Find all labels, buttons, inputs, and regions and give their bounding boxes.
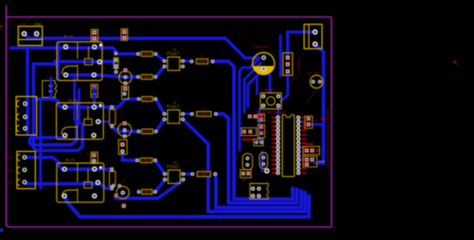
header C8 right of U4 (305, 116, 318, 128)
wire regulator to terminal X3 (288, 32, 315, 58)
label TILP 10V (307, 71, 319, 75)
svg-text:LM7805: LM7805 (297, 59, 301, 70)
svg-text:4K7: 4K7 (144, 190, 150, 194)
optocoupler U1 PC817 (163, 48, 185, 71)
svg-text:4K7: 4K7 (144, 130, 150, 134)
wire left horizontal to relay1 (34, 64, 58, 78)
wire cap to reset (264, 69, 270, 92)
wire 4K7 no3 to opto U2 pin1 (156, 99, 165, 114)
svg-text:RL V3: RL V3 (66, 158, 75, 162)
capacitor C2 electrolytic (117, 121, 132, 138)
svg-text:Pw1: Pw1 (7, 156, 13, 160)
wire diode D2b to 4K7 no4 (112, 126, 139, 131)
board outline bottom edge (6, 222, 331, 227)
svg-text:RL V1: RL V1 (69, 98, 78, 102)
wire opto U1 out to R1 (183, 60, 192, 63)
stray red dot top right (453, 60, 458, 65)
svg-text:4K7: 4K7 (143, 159, 149, 163)
small part Rv1 vertical (114, 58, 119, 69)
wire 4K7 no4 to opto U2 pin2 (156, 119, 165, 131)
IC U4 DIP-28 pads (276, 116, 301, 175)
header H2 right of U4 (303, 146, 319, 154)
wire U4 to header H3 (298, 158, 306, 161)
pads pair C10 (248, 114, 264, 119)
resistor 4K7 no5 (135, 158, 157, 163)
connector J1 power (18, 26, 42, 45)
svg-text:F1: F1 (122, 179, 126, 183)
wire R2 to bus then up to MCU (216, 114, 297, 203)
wire bottom cap to opto U3 pin4 (116, 180, 183, 198)
svg-text:U4: U4 (256, 110, 260, 114)
terminal block X3 2pin (304, 24, 322, 48)
svg-text:470: 470 (201, 112, 207, 116)
wire R3 to bus then up to MCU (215, 174, 301, 207)
via near relay1 (99, 44, 102, 47)
capacitor C4 TILP (310, 75, 323, 88)
wire relay3 top row (65, 167, 112, 170)
relay RL V2 (56, 98, 103, 139)
svg-text:In1: In1 (8, 102, 13, 106)
terminal block X1 3pin (16, 97, 36, 136)
via at 4K7 no1 feed (114, 52, 117, 55)
label X2 pin3 (8, 181, 14, 185)
svg-text:RL V1: RL V1 (64, 35, 73, 39)
ratsnest diag 2 (288, 76, 294, 92)
wire vertical near crystal (261, 152, 263, 171)
IC U4 body (282, 115, 294, 177)
diode D2b 1N4148 vertical (109, 105, 118, 128)
label GND (34, 23, 42, 27)
capacitor C3 330uF (253, 53, 275, 75)
via below Y1 (264, 168, 269, 173)
wire relay1 to relay2 coil vertical 1 (73, 78, 76, 119)
board outline top edge (6, 16, 331, 18)
svg-text:1N4148: 1N4148 (114, 173, 118, 183)
svg-text:1N4148: 1N4148 (259, 130, 269, 134)
wire reset right pad to U4 pin1 (277, 106, 280, 118)
wire regulator down (281, 71, 288, 101)
wire conn2 pin1 to relay3 (25, 157, 65, 169)
wire reset to C5 C6 vertical (260, 106, 264, 140)
relay RL V1 (57, 35, 102, 81)
wire relay2 mid pad to diode D2 (98, 120, 108, 122)
svg-text:RESET: RESET (265, 89, 276, 93)
IC U4 pin labels (272, 117, 307, 174)
label VCC (20, 23, 28, 27)
label X1 pin2 (8, 115, 13, 119)
svg-text:D-RB: D-RB (5, 168, 12, 172)
diode D3b 1N4148 vertical (109, 167, 118, 190)
jumper JP2 2pad (121, 29, 127, 41)
wire 4K7 no5 to opto U3 pin1 (155, 160, 165, 174)
part header H1 left (241, 128, 268, 136)
resistor R3 470 (191, 167, 217, 176)
part JP3 below C1 (122, 86, 129, 99)
label red row below H1 (242, 138, 254, 140)
regulator VR1 78L05 (283, 53, 301, 76)
wire coil feed B (34, 99, 83, 151)
connector ISP 4pad block (250, 184, 268, 200)
wire relay2 return U-turn (30, 120, 77, 145)
optocoupler U3 PC817 (163, 161, 185, 184)
wire GND bottom of J1 long (11, 48, 138, 54)
header H3 I2C (303, 156, 325, 167)
wire top mid vertical stub (279, 36, 282, 76)
wire through D1 (93, 88, 96, 107)
ratsnest diag 1 (306, 90, 316, 104)
wire relay3 to long bottom trace (65, 196, 310, 217)
label fragment left edge (0, 25, 3, 27)
ratsnest line right (327, 108, 329, 168)
wire opto U2 pin4 diagonal to bus (183, 119, 305, 211)
svg-text:In2: In2 (8, 115, 13, 119)
wire U4 to header H2 (298, 147, 306, 150)
wire conn2 pin3 through relay3 coil (25, 182, 112, 188)
svg-text:R2: R2 (202, 107, 206, 111)
svg-text:In3: In3 (8, 127, 13, 131)
wire header B1 to right vertical (312, 123, 324, 126)
jumper Jv vertical (119, 140, 127, 155)
diode D2 2pin (91, 152, 98, 163)
jumper JP1 2pad (91, 30, 98, 42)
label U4 ATMEGA328P (256, 110, 287, 115)
wire relay1 middle row (55, 62, 116, 72)
svg-text:PC817: PC817 (166, 104, 179, 109)
wire Jv to 4K7 no5 (123, 151, 138, 160)
part J5 left of crystal (254, 139, 263, 146)
resistor 4K7 no3 (137, 97, 157, 102)
capacitor C7 bottom small (240, 170, 251, 182)
wire terminal X3 pin2 down right edge (315, 44, 324, 163)
wire left vertical A branch (26, 48, 29, 133)
terminal block X2 3pin (17, 151, 36, 188)
svg-text:4K7: 4K7 (144, 75, 150, 79)
svg-text:MCH: MCH (319, 160, 325, 164)
svg-text:4K7: 4K7 (144, 52, 150, 56)
crystal Y1 (260, 153, 268, 169)
wire relay1 to relay2 coil vertical 2 (78, 90, 81, 124)
capacitor C5 left of U4 (258, 114, 265, 122)
resistor 4K7 no4 (137, 129, 158, 134)
wire mcu left vertical 3 (248, 69, 264, 106)
svg-text:1N4148: 1N4148 (114, 111, 118, 121)
wire through fuse (50, 78, 53, 99)
svg-text:C7: C7 (242, 178, 246, 182)
resistor 4K7 no6 (137, 189, 157, 194)
label X1 pin3 (8, 127, 13, 131)
wire cap side vertical (256, 76, 258, 94)
wire 4K7 no6 to opto U3 pin2 (155, 180, 165, 192)
wire 4K7 no1 to opto U1 (156, 54, 165, 61)
capacitor C1 electrolytic (118, 68, 132, 85)
wire opto U3 out to R3 (183, 173, 192, 176)
svg-text:Pw2: Pw2 (8, 181, 14, 185)
via mid column (114, 70, 118, 74)
label X1 pin1 (8, 102, 13, 106)
svg-text:4K7: 4K7 (144, 97, 150, 101)
svg-text:VCC: VCC (20, 23, 28, 27)
resistor R2 470 (190, 107, 217, 116)
capacitor C6 left of U4 (258, 125, 265, 138)
optocoupler U2 PC817 (163, 101, 185, 124)
wire VCC from J1 to cap C3 (24, 34, 258, 58)
svg-text:PC817: PC817 (166, 51, 179, 56)
resistor R1 470 (190, 55, 215, 64)
label X2 pin2 (5, 168, 12, 172)
via near relay2 (99, 104, 102, 107)
capacitor C9 bottom left (112, 179, 130, 208)
resistor 4K7 no2 (136, 75, 157, 80)
resistor 4K7 no1 (136, 52, 157, 57)
svg-text:ATMEGA328P: ATMEGA328P (263, 111, 287, 115)
svg-text:TILP 10V: TILP 10V (307, 71, 319, 75)
svg-text:PC817: PC817 (167, 164, 180, 169)
svg-text:330uF25v: 330uF25v (254, 45, 269, 49)
svg-text:470: 470 (199, 60, 205, 64)
board outline right edge (331, 17, 333, 227)
diode D1 2pin (91, 84, 98, 97)
relay RL V3 (57, 158, 104, 202)
label 330uF25v (254, 45, 269, 49)
via near relay3 (99, 166, 102, 169)
oscillator part left of crystal (243, 154, 253, 171)
wire conn1 vertical pass (39, 100, 42, 188)
wire mcu left vertical 1 (240, 59, 259, 150)
stray blue speck bottom left (0, 229, 3, 233)
red marks right of headers (305, 118, 326, 145)
pushbutton SW1 reset (260, 93, 281, 109)
wire left vertical B to relay2 and 4K7 no3 (34, 64, 139, 107)
svg-text:R3: R3 (202, 167, 206, 171)
wire R1 to bus then up to MCU (213, 61, 293, 199)
svg-text:C8: C8 (314, 119, 318, 123)
wire relay1 bottom row to 4K7 no2 (66, 75, 138, 77)
wire U4 to header B1 (298, 122, 308, 125)
svg-text:R1: R1 (200, 55, 204, 59)
wire 4K7 no2 to opto U1 pin2 (156, 66, 165, 77)
board outline left edge (5, 5, 7, 226)
label RESET (265, 89, 276, 93)
label X2 pin1 (7, 156, 13, 160)
svg-text:470: 470 (201, 173, 207, 177)
svg-text:GND: GND (34, 23, 42, 27)
wire mcu left vertical 2 (244, 63, 261, 112)
fuse F1 2pin (42, 81, 56, 98)
wire relay1 left vertical (56, 44, 59, 64)
wire opto U2 out to R2 (183, 113, 192, 116)
